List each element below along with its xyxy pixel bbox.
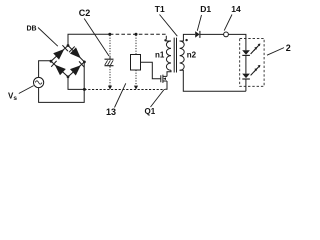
svg-text:n1: n1	[155, 51, 165, 60]
svg-text:14: 14	[231, 4, 241, 14]
svg-text:D1: D1	[200, 4, 211, 14]
svg-text:13: 13	[106, 107, 116, 117]
svg-text:2: 2	[286, 43, 291, 53]
svg-text:n2: n2	[187, 51, 197, 60]
svg-text:T1: T1	[155, 4, 165, 14]
svg-text:DB: DB	[27, 26, 37, 33]
svg-text:C2: C2	[79, 8, 91, 18]
svg-text:Q1: Q1	[145, 107, 156, 116]
